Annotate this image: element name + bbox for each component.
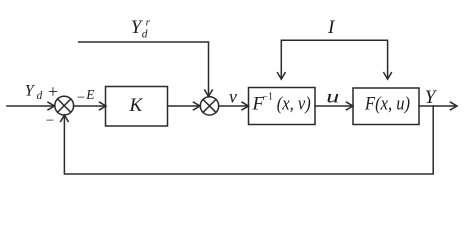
block K (106, 87, 168, 127)
svg-text:(x, v): (x, v) (277, 94, 311, 115)
svg-text:E: E (85, 87, 95, 102)
svg-text:u: u (326, 86, 339, 106)
svg-text:F(x, u): F(x, u) (364, 94, 410, 115)
wire: I arrow into Finv (278, 73, 286, 80)
node: summing junction S1 (55, 96, 74, 115)
block F^-1(x,v) (249, 88, 316, 125)
label -E (77, 87, 95, 106)
wire: input Yd line (7, 102, 55, 110)
wire: I bracket top line (281, 40, 387, 78)
label Yd (input) (25, 82, 43, 102)
svg-text:d: d (142, 29, 148, 41)
svg-text:K: K (129, 95, 144, 116)
wire: Finv to block F (u signal) (315, 102, 353, 110)
svg-text:v: v (229, 86, 237, 106)
wire: K to summing junction S2 (168, 102, 201, 110)
block F(x,u) (353, 88, 419, 125)
svg-text:−1: −1 (262, 92, 273, 103)
wire: S1 to block K (-E signal) (74, 102, 106, 110)
svg-text:−: − (46, 113, 54, 129)
svg-text:−: − (77, 90, 85, 106)
wire: output Y arrow (419, 102, 457, 110)
svg-text:r: r (146, 16, 151, 28)
label F^-1(x,v) (block Finv) (252, 92, 311, 115)
node: summing junction S2 (200, 97, 218, 115)
wire: feedback loop from Y to S1 (61, 106, 434, 174)
svg-text:+: + (48, 81, 58, 101)
label Ydr (reference) (131, 16, 151, 40)
svg-text:d: d (37, 90, 43, 102)
wire: reference Ydr top line into S2 (79, 42, 213, 97)
wire: S2 to block Finv (v signal) (219, 102, 249, 110)
wire: I arrow into F (384, 73, 392, 80)
